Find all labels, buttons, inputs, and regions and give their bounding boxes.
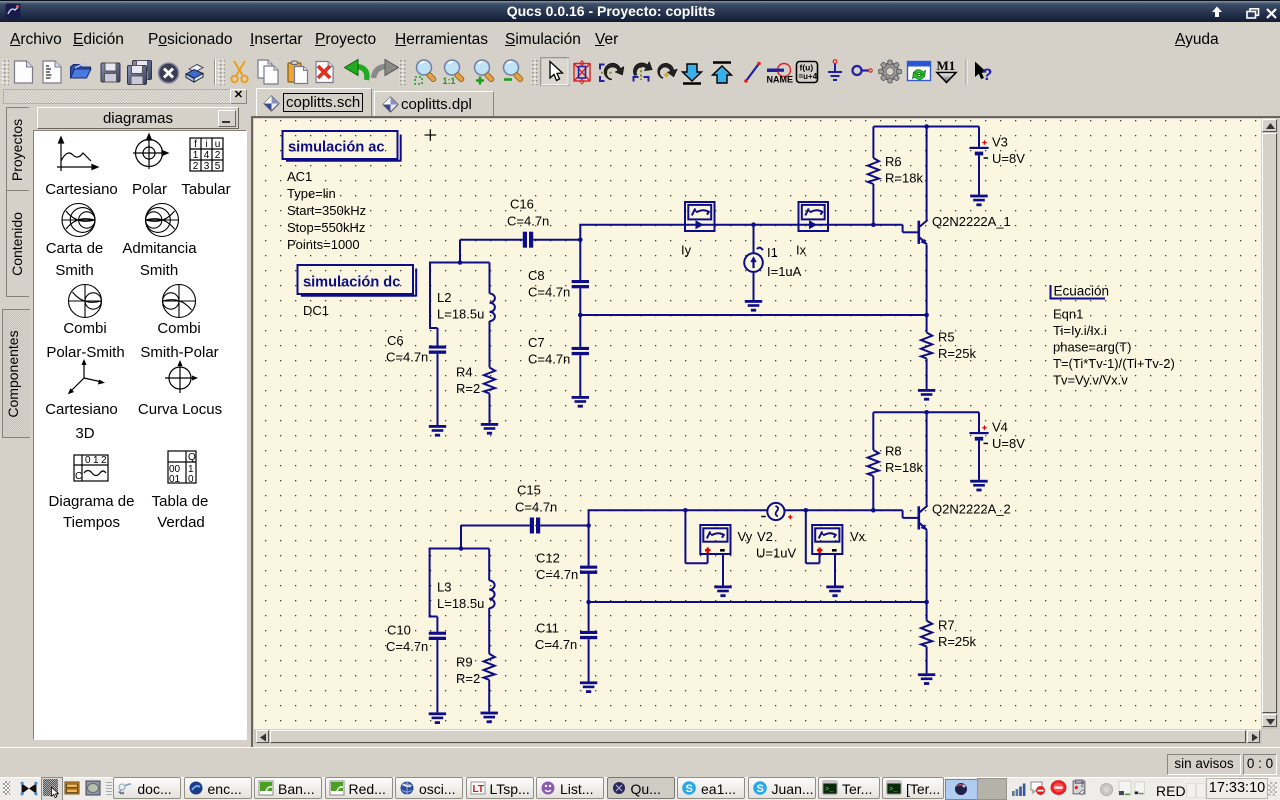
icon Polar	[133, 134, 168, 169]
wire riser2	[460, 526, 462, 549]
wire V3 bottom lead	[978, 155, 980, 194]
wire tank top	[429, 262, 490, 264]
wire bottom rail top circuit	[580, 314, 926, 316]
wire bottom rail 2	[589, 601, 927, 603]
wire C16 left	[460, 239, 523, 241]
transistor Q2N2222A_1	[918, 220, 928, 245]
node m2	[586, 600, 591, 605]
icon Curva Locus	[165, 363, 195, 393]
wire left branch 2	[429, 549, 431, 617]
capacitor C11	[580, 631, 597, 639]
svg-text:Smith: Smith	[55, 262, 93, 279]
svg-text:Combi: Combi	[63, 320, 106, 337]
toolbar icon mirror Y	[600, 65, 605, 82]
wire collector Q1	[926, 127, 928, 221]
wire left branch	[429, 263, 431, 329]
minus mark V2 minus	[761, 516, 765, 518]
wire R9 to ground	[488, 680, 490, 712]
node n2	[578, 313, 583, 318]
ground V4 gnd	[970, 480, 987, 492]
wire R8 top lead	[872, 412, 874, 450]
resistor R5	[921, 333, 932, 359]
voltmeter Vx	[812, 525, 842, 554]
wire top rail	[873, 126, 979, 128]
wire collector Q2	[926, 412, 928, 505]
capacitor C10	[429, 632, 446, 640]
icon Admitancia Smith	[146, 204, 179, 237]
toolbar separator	[214, 59, 216, 85]
ammeter Ix	[799, 202, 829, 231]
toolbar icon paste	[288, 63, 301, 82]
wire base jog right	[903, 231, 918, 233]
svg-text:L3: L3	[437, 580, 451, 595]
svg-text:I1: I1	[767, 245, 778, 260]
svg-text:Curva Locus: Curva Locus	[138, 401, 222, 418]
ground R9 gnd	[481, 712, 498, 724]
svg-text:AC1: AC1	[287, 169, 312, 184]
simulation box DC1 simulacion dc	[298, 265, 417, 297]
ground R4 gnd	[481, 423, 498, 435]
ground Vy gnd	[714, 586, 731, 598]
svg-text:Verdad: Verdad	[157, 514, 205, 531]
node m0	[459, 546, 464, 551]
icon Tabular	[190, 138, 223, 171]
svg-text:Tabular: Tabular	[181, 181, 230, 198]
svg-text:V2: V2	[757, 529, 773, 544]
wire base jog down 2	[902, 510, 904, 518]
node n6	[924, 313, 929, 318]
svg-text:T=(Ti*Tv-1)/(Ti+Tv-2): T=(Ti*Tv-1)/(Ti+Tv-2)	[1053, 356, 1175, 371]
cursor cross	[425, 129, 437, 141]
svg-text:L=18.5u: L=18.5u	[437, 596, 484, 611]
resistor R4	[484, 368, 495, 394]
svg-text:Q2N2222A_1: Q2N2222A_1	[932, 214, 1011, 229]
toolbar icon new	[15, 61, 33, 83]
wire C15 left	[461, 525, 530, 527]
node n3	[751, 222, 756, 227]
ground R5 gnd	[918, 389, 935, 401]
toolbar icon zoom select	[417, 60, 432, 75]
svg-text:C=4.7n: C=4.7n	[528, 285, 570, 300]
ac voltage source V2	[767, 503, 784, 520]
node n5	[924, 124, 929, 129]
svg-text:2: 2	[1081, 781, 1085, 788]
svg-text:0: 0	[188, 474, 194, 485]
svg-text:5: 5	[215, 161, 221, 172]
svg-text:Tv=Vy.v/Vx.v: Tv=Vy.v/Vx.v	[1053, 373, 1128, 388]
svg-text:Admitancia: Admitancia	[122, 240, 197, 257]
icon Cartesiano	[57, 137, 98, 171]
svg-text:Points=1000: Points=1000	[287, 237, 360, 252]
wire Vx pin up	[819, 555, 821, 563]
toolbar icon zoom 1:1	[445, 60, 460, 75]
svg-text:Smith: Smith	[140, 262, 178, 279]
svg-text:S: S	[686, 783, 693, 795]
wire C7 to ground	[579, 355, 581, 396]
wire R7 top lead	[926, 602, 928, 621]
wire R4 to ground	[489, 394, 491, 424]
svg-text:01: 01	[169, 474, 181, 485]
icon Diagrama de Tiempos	[74, 455, 108, 481]
wire R5 bottom lead	[926, 359, 928, 390]
toolbar separator	[965, 59, 967, 85]
svg-text:Eqn1: Eqn1	[1053, 307, 1083, 322]
icon Carta de Smith	[62, 204, 95, 237]
svg-text:L2: L2	[437, 290, 451, 305]
svg-text:DC1: DC1	[303, 303, 329, 318]
svg-text:R6: R6	[885, 154, 902, 169]
ground C10 gnd	[429, 712, 446, 724]
wire jog 2	[429, 616, 438, 618]
wire R6 top lead	[872, 127, 874, 159]
wire C10 to ground	[436, 640, 438, 712]
wire Vx minus pin	[834, 555, 836, 586]
wire V4 bottom lead	[978, 441, 980, 480]
svg-text:2: 2	[193, 161, 199, 172]
wire L2 top lead	[489, 263, 491, 294]
svg-text:3D: 3D	[75, 425, 94, 442]
svg-text:Smith-Polar: Smith-Polar	[140, 344, 218, 361]
ground C6 gnd	[429, 425, 446, 437]
wire to C10	[436, 617, 438, 632]
svg-text:R=25k: R=25k	[938, 634, 976, 649]
node m5	[871, 508, 876, 513]
svg-text:2: 2	[101, 455, 107, 466]
svg-text:simulación dc: simulación dc	[303, 275, 400, 291]
svg-text:Vx: Vx	[850, 529, 866, 544]
svg-text:Q: Q	[188, 452, 196, 463]
icon Tabla de Verdad	[168, 451, 196, 483]
wire corner down to C8	[579, 225, 581, 280]
svg-text:=u+4: =u+4	[799, 72, 818, 81]
toolbar icon deactivate (red box)	[574, 64, 590, 82]
svg-text:Vy: Vy	[738, 529, 753, 544]
toolbar icon simulate display	[908, 62, 931, 81]
svg-text:>_: >_	[889, 786, 898, 794]
svg-text:R=18k: R=18k	[885, 171, 923, 186]
node n0	[458, 260, 463, 265]
toolbar icon open	[71, 65, 91, 79]
resistor R7	[921, 621, 932, 647]
toolbar icon print	[189, 65, 203, 73]
toolbar icon help pointer	[975, 62, 987, 80]
svg-text:L=18.5u: L=18.5u	[437, 307, 484, 322]
node m6	[924, 410, 929, 415]
wire I1 top lead	[753, 225, 755, 254]
wire V4 top lead	[978, 412, 980, 432]
svg-text:1: 1	[93, 455, 99, 466]
wire L3 to R9	[488, 608, 490, 654]
wire R5 top lead	[926, 315, 928, 333]
svg-text:I=1uA: I=1uA	[767, 264, 802, 279]
toolbar icon zoom out	[504, 60, 519, 75]
wire V3 top lead	[978, 127, 980, 147]
svg-text:Start=350kHz: Start=350kHz	[287, 203, 366, 218]
voltage source V4	[969, 432, 988, 441]
current source I1	[744, 248, 763, 272]
wire C6 to ground	[437, 354, 439, 425]
toolbar icon save	[101, 63, 120, 82]
capacitor C7	[572, 347, 589, 355]
wire tank top 2	[429, 548, 490, 550]
svg-text:C10: C10	[387, 623, 411, 638]
svg-text:R=2: R=2	[456, 671, 480, 686]
wire C16 right	[533, 239, 580, 241]
svg-text:u: u	[215, 139, 221, 150]
node m1	[586, 523, 591, 528]
wire Vx tap	[805, 510, 807, 563]
wire to C6	[437, 328, 439, 346]
voltage source V3	[969, 147, 988, 156]
toolbar icon copy	[258, 60, 272, 78]
wire main node bottom	[588, 509, 903, 511]
toolbar icon delete	[316, 62, 333, 83]
svg-text:2: 2	[215, 150, 221, 161]
svg-text:S: S	[756, 783, 763, 795]
wire emitter Q2	[926, 530, 928, 602]
plus mark V3 plus	[982, 140, 986, 144]
wire Vy pin up	[707, 555, 709, 563]
inductor L3	[489, 581, 494, 609]
minus mark V3 minus	[984, 157, 988, 159]
toolbar icon label NAME	[767, 69, 777, 73]
svg-text:C8: C8	[528, 268, 545, 283]
svg-text:R=25k: R=25k	[938, 346, 976, 361]
node m7	[924, 600, 929, 605]
resistor R9	[484, 654, 495, 680]
toolbar icon zoom in	[475, 60, 490, 75]
svg-text:U=1uV: U=1uV	[756, 546, 796, 561]
wire top rail 2	[873, 411, 979, 413]
wire base jog right 2	[903, 517, 918, 519]
toolbar icon mirror about X (down arrow)	[683, 64, 702, 81]
wire R7 bottom lead	[926, 647, 928, 674]
icon Combi Polar-Smith	[69, 285, 102, 318]
svg-text:C: C	[75, 471, 82, 482]
node m4	[804, 508, 809, 513]
wire main node top	[579, 224, 902, 226]
svg-text:U=8V: U=8V	[992, 436, 1025, 451]
svg-text:R5: R5	[938, 330, 955, 345]
toolbar icon mirror about Y (up arrow)	[713, 66, 732, 83]
ground C11 gnd	[580, 681, 597, 693]
toolbar icon ground	[828, 63, 842, 80]
svg-text:C=4.7n: C=4.7n	[386, 350, 428, 365]
svg-text:U=8V: U=8V	[992, 151, 1025, 166]
plus mark V2 plus	[788, 515, 792, 519]
transistor Q2N2222A_2	[918, 506, 928, 531]
svg-text:C7: C7	[528, 335, 545, 350]
toolbar handle	[2, 59, 9, 85]
svg-text:R8: R8	[885, 444, 902, 459]
svg-text:Polar-Smith: Polar-Smith	[46, 344, 124, 361]
toolbar icon wire	[746, 64, 759, 82]
ground I1 gnd	[745, 300, 762, 312]
ground Vx gnd	[826, 586, 843, 598]
svg-text:Cartesiano: Cartesiano	[45, 401, 118, 418]
wire R6 bottom lead	[872, 184, 874, 225]
wire Vy tap	[684, 510, 686, 563]
svg-text:?: ?	[982, 65, 992, 84]
capacitor C15	[530, 518, 540, 534]
svg-text:NAME: NAME	[767, 75, 794, 85]
wire riser to tank	[459, 240, 461, 263]
wire C11 to ground	[588, 639, 590, 681]
svg-text:Stop=550kHz: Stop=550kHz	[287, 220, 365, 235]
svg-text:phase=arg(T): phase=arg(T)	[1053, 340, 1131, 355]
capacitor C16	[523, 232, 533, 248]
svg-text:1:1: 1:1	[443, 76, 456, 86]
svg-text:C=4.7n: C=4.7n	[528, 352, 570, 367]
svg-text:Q2N2222A_2: Q2N2222A_2	[932, 502, 1011, 517]
wire C8 to C7	[579, 288, 581, 347]
svg-text:Carta de: Carta de	[46, 240, 104, 257]
wire L2 to R4	[489, 321, 491, 368]
equation block Eqn1	[1050, 284, 1110, 300]
toolbar icon cut	[234, 61, 245, 76]
svg-text:C12: C12	[536, 551, 560, 566]
voltmeter Vy	[700, 525, 730, 554]
plus mark V4 plus	[982, 426, 986, 430]
ground R7 gnd	[918, 673, 935, 685]
svg-text:R7: R7	[938, 618, 955, 633]
wire Vx bottom	[806, 562, 820, 564]
svg-text:R9: R9	[456, 655, 473, 670]
svg-text:R4: R4	[456, 365, 473, 380]
svg-text:Polar: Polar	[132, 181, 167, 198]
toolbar icon equation	[797, 62, 818, 83]
wire C15 right	[540, 525, 588, 527]
toolbar icon mirror X / rotate ccw	[640, 66, 642, 80]
simulation box AC1 simulacion ac	[283, 131, 401, 162]
node m3	[683, 508, 688, 513]
svg-text:Tabla de: Tabla de	[152, 493, 209, 510]
capacitor C12	[580, 566, 597, 574]
svg-text:C6: C6	[387, 333, 404, 348]
node n1	[578, 237, 583, 242]
svg-text:Ti=Iy.i/Ix.i: Ti=Iy.i/Ix.i	[1053, 323, 1107, 338]
svg-text:R=18k: R=18k	[885, 460, 923, 475]
svg-text:LT: LT	[472, 784, 483, 795]
wire emitter Q1	[926, 245, 928, 315]
toolbar icon port	[853, 66, 862, 75]
toolbar icon undo	[357, 67, 367, 81]
svg-text:R=2: R=2	[456, 381, 480, 396]
wire I1 to ground	[753, 272, 755, 300]
toolbar icon tune (gear)	[879, 60, 902, 83]
toolbar icon redo	[374, 67, 387, 79]
svg-text:V3: V3	[992, 135, 1008, 150]
wire jog	[429, 327, 438, 329]
svg-text:>_: >_	[825, 786, 834, 794]
resistor R8	[868, 450, 879, 476]
wire base jog down	[902, 225, 904, 233]
toolbar icon save all	[133, 61, 152, 80]
svg-text:Type=lin: Type=lin	[287, 186, 336, 201]
toolbar icon new text	[43, 61, 61, 83]
toolbar icon close	[159, 63, 179, 83]
svg-text:C16: C16	[510, 197, 534, 212]
toolbar button pointer (pressed)	[541, 58, 569, 85]
inductor L2	[490, 294, 495, 322]
wire Vy bottom	[685, 562, 707, 564]
svg-text:C=4.7n: C=4.7n	[515, 500, 557, 515]
svg-text:Tiempos: Tiempos	[63, 514, 120, 531]
svg-text:M1: M1	[937, 58, 956, 73]
resistor R6	[868, 158, 879, 184]
svg-text:3: 3	[204, 161, 210, 172]
icon Combi Smith-Polar	[163, 285, 196, 318]
icon Cartesiano 3D	[70, 362, 102, 392]
wire R8 bottom lead	[872, 476, 874, 510]
svg-text:Combi: Combi	[157, 320, 200, 337]
svg-text:C=4.7n: C=4.7n	[386, 639, 428, 654]
svg-text:i: i	[205, 139, 207, 150]
svg-text:C=4.7n: C=4.7n	[536, 567, 578, 582]
svg-text:C=4.7n: C=4.7n	[507, 214, 549, 229]
svg-text:V4: V4	[992, 420, 1008, 435]
wire Vy minus pin	[722, 555, 724, 586]
svg-text:f: f	[194, 139, 197, 150]
ground V3 gnd	[970, 195, 987, 207]
svg-text:Iy: Iy	[681, 243, 692, 258]
wire corner down to C12	[588, 510, 590, 565]
svg-text:C15: C15	[517, 483, 541, 498]
svg-text:Ix: Ix	[796, 243, 807, 258]
wire L3 top lead	[488, 549, 490, 581]
svg-text:4: 4	[204, 150, 210, 161]
capacitor C6	[429, 346, 446, 354]
wire C12 to C11	[588, 574, 590, 631]
svg-text:C11: C11	[536, 621, 559, 636]
node n4	[871, 222, 876, 227]
svg-text:f(u): f(u)	[800, 63, 814, 73]
ground C7 gnd	[572, 396, 589, 408]
svg-text:C=4.7n: C=4.7n	[535, 637, 577, 652]
minus mark V4 minus	[984, 442, 988, 444]
svg-text:Ecuación: Ecuación	[1054, 284, 1110, 299]
svg-text:1: 1	[193, 150, 199, 161]
ammeter Iy	[685, 202, 715, 231]
svg-text:Cartesiano: Cartesiano	[45, 181, 118, 198]
svg-text:0: 0	[85, 455, 91, 466]
svg-text:Diagrama de: Diagrama de	[49, 493, 135, 510]
toolbar icon rotate	[656, 62, 678, 82]
capacitor C8	[572, 280, 589, 288]
svg-text:simulación ac: simulación ac	[288, 140, 385, 156]
